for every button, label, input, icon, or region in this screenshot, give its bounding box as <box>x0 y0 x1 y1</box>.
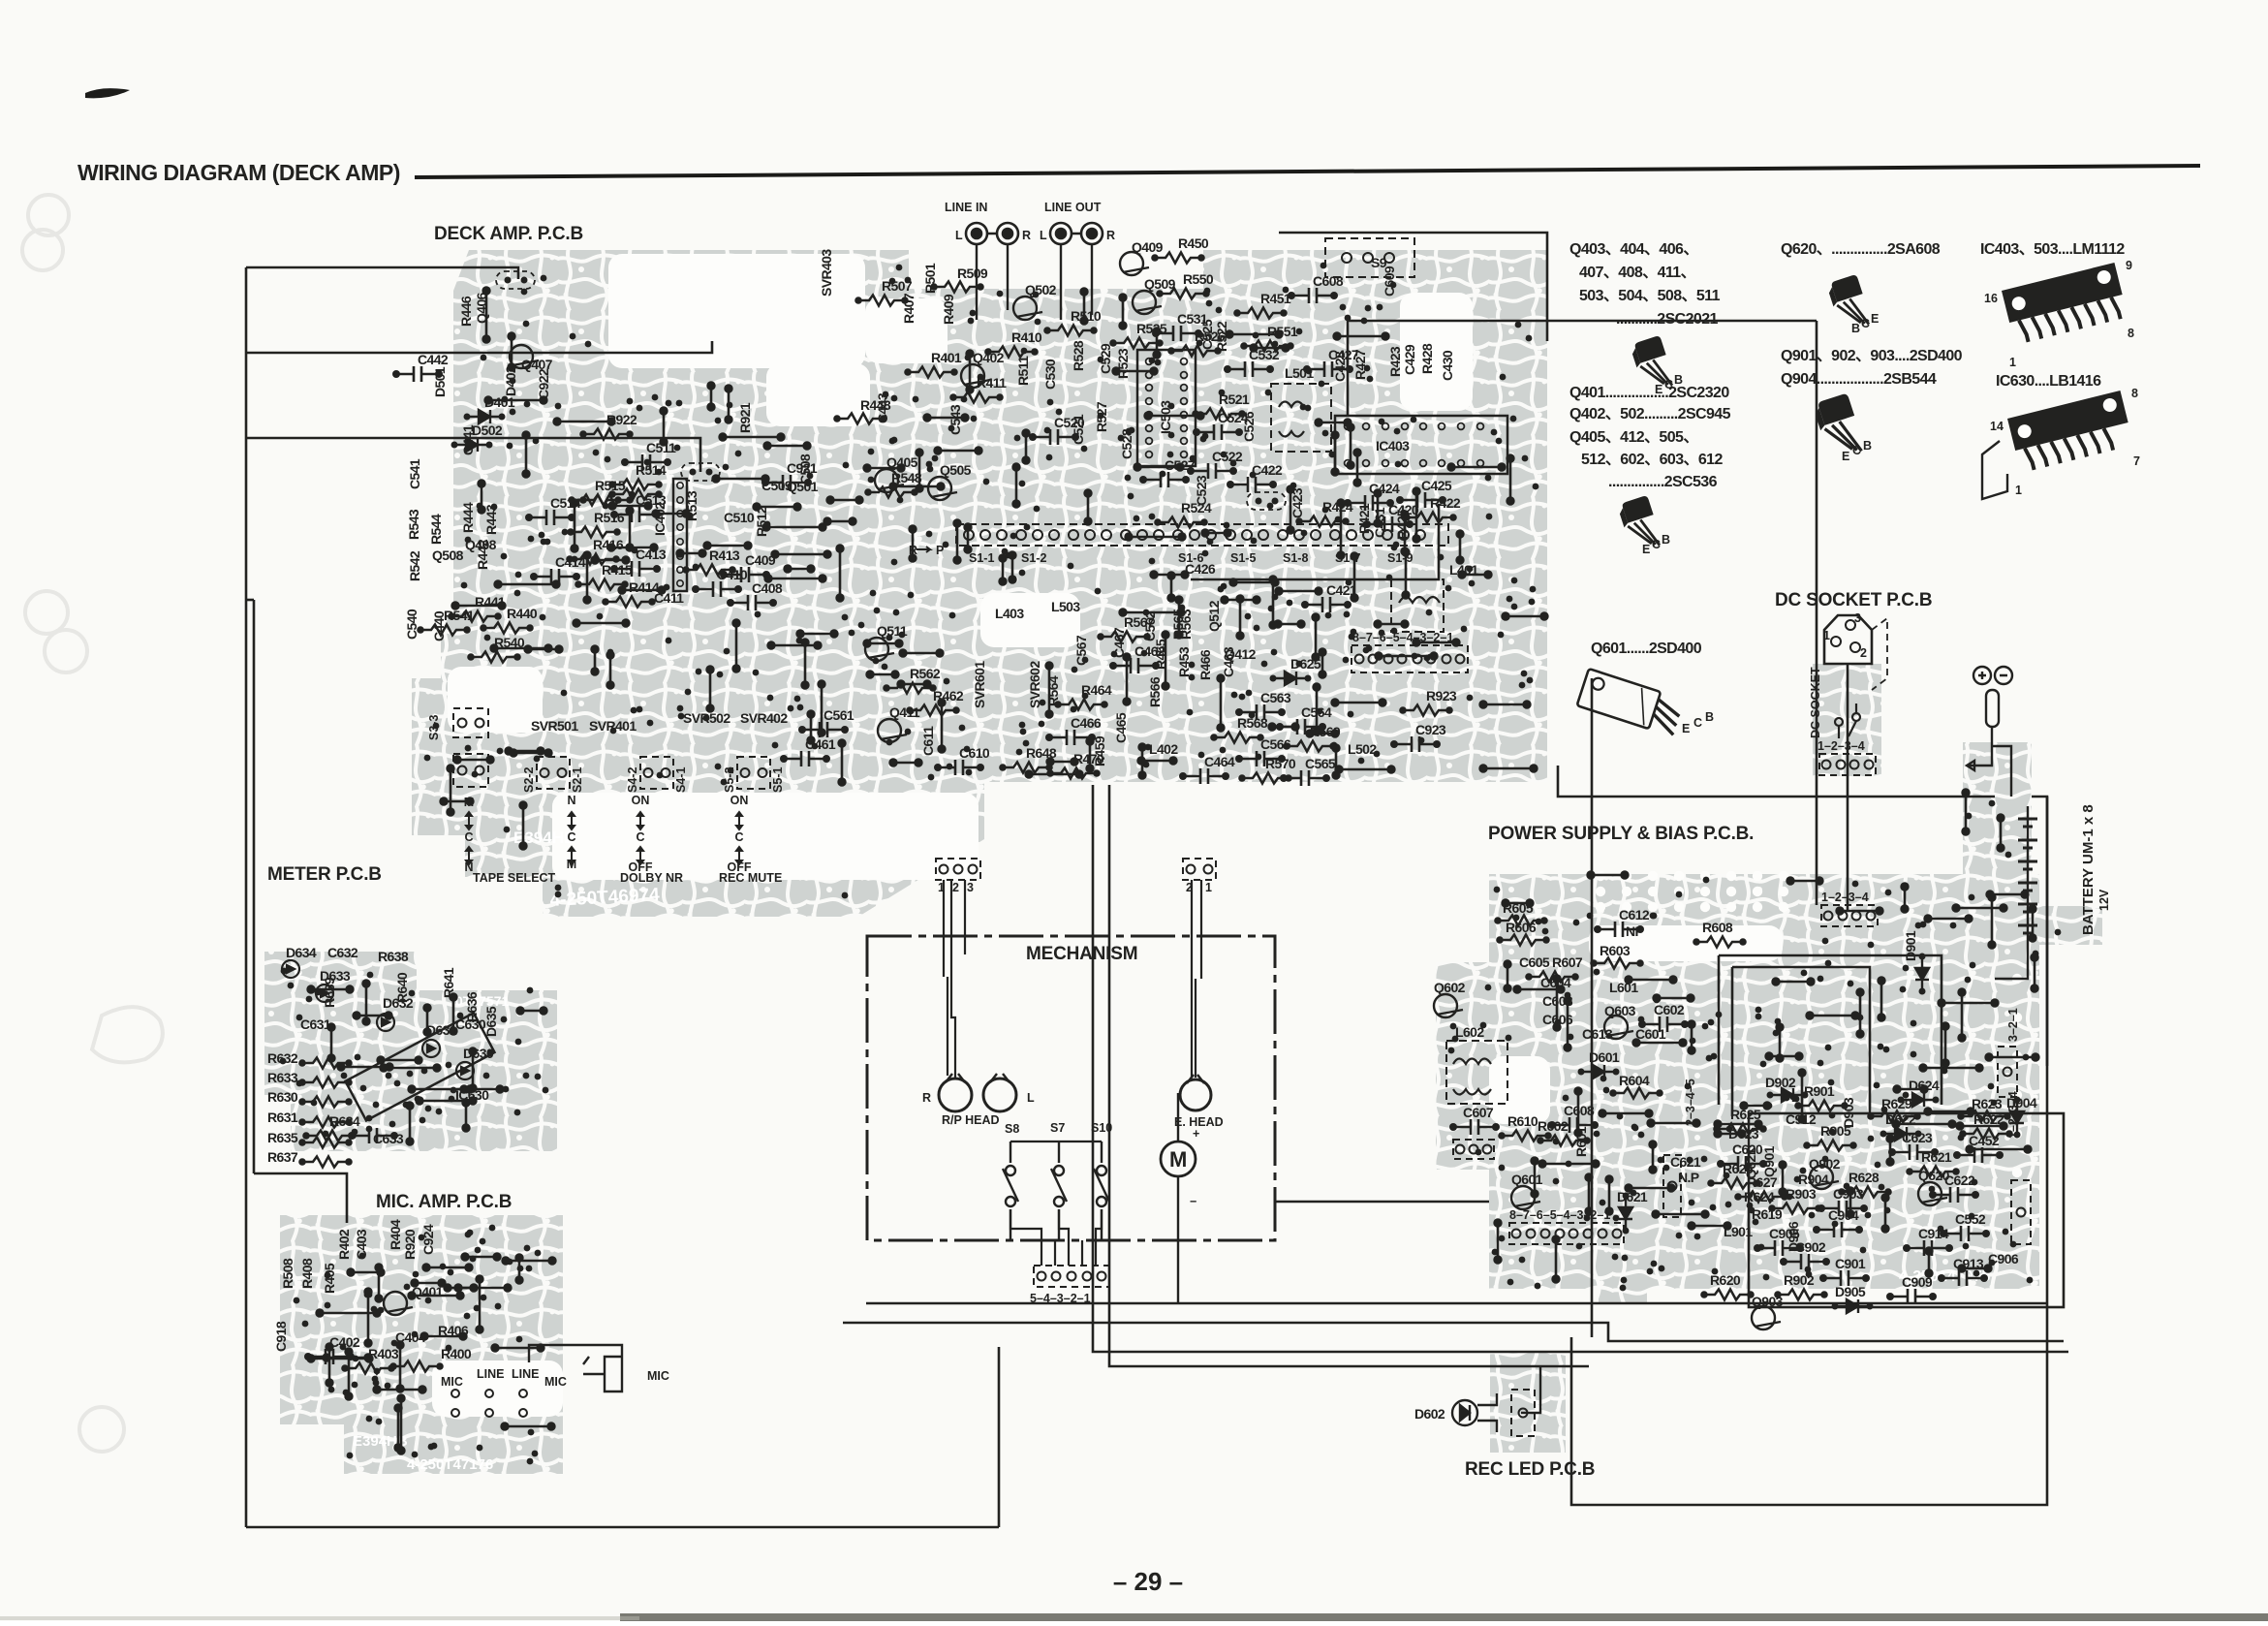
svg-text:B: B <box>1662 533 1670 547</box>
svg-text:DC SOCKET: DC SOCKET <box>1809 667 1822 738</box>
svg-text:−: − <box>1190 1195 1196 1208</box>
DC socket pins <box>1831 620 1860 652</box>
svg-text:R603: R603 <box>1600 943 1631 958</box>
svg-text:C607: C607 <box>1463 1105 1494 1120</box>
svg-text:E: E <box>1682 722 1690 735</box>
svg-text:512、602、603、612: 512、602、603、612 <box>1581 452 1723 468</box>
legend transistor 2SC536 drawing <box>1617 495 1660 546</box>
svg-text:SVR502: SVR502 <box>683 710 730 726</box>
svg-text:Q403、404、406、: Q403、404、406、 <box>1569 241 1698 258</box>
svg-text:R: R <box>922 1091 931 1105</box>
svg-text:R404: R404 <box>388 1219 403 1250</box>
svg-text:DC SOCKET P.C.B: DC SOCKET P.C.B <box>1775 590 1932 610</box>
meter diode glyphs <box>282 960 299 978</box>
svg-text:BATTERY UM-1 x 8: BATTERY UM-1 x 8 <box>2080 804 2097 935</box>
svg-text:S7: S7 <box>1050 1121 1065 1135</box>
svg-text:Q901、902、903....2SD400: Q901、902、903....2SD400 <box>1781 348 1963 364</box>
legend transistor 2SC2021 drawing <box>1630 335 1672 386</box>
mic amp board pad cluster <box>294 1225 542 1465</box>
svg-text:C540: C540 <box>404 609 419 640</box>
svg-text:R406: R406 <box>438 1323 469 1338</box>
svg-text:S4-2: S4-2 <box>626 767 639 793</box>
svg-text:MIC: MIC <box>544 1375 567 1389</box>
svg-text:C924: C924 <box>420 1224 436 1255</box>
svg-text:R408: R408 <box>299 1258 315 1289</box>
legend LB1416 DIP drawing <box>2007 391 2133 473</box>
svg-text:+: + <box>1193 1127 1199 1141</box>
svg-text:S1-1: S1-1 <box>969 551 994 565</box>
svg-text:D625: D625 <box>1290 656 1321 672</box>
svg-text:C564: C564 <box>1301 704 1332 720</box>
svg-text:C523: C523 <box>1194 475 1209 506</box>
svg-text:Q602: Q602 <box>1434 980 1466 995</box>
svg-text:R640: R640 <box>394 972 410 1003</box>
svg-text:C: C <box>1852 444 1861 457</box>
power bottom wire rect <box>1749 1113 2064 1307</box>
svg-text:C923: C923 <box>1415 722 1446 737</box>
svg-text:C608: C608 <box>1313 273 1344 289</box>
svg-text:L501: L501 <box>1285 365 1314 381</box>
svg-text:C461: C461 <box>805 736 836 752</box>
svg-text:Q601......2SD400: Q601......2SD400 <box>1591 641 1702 657</box>
svg-text:Q509: Q509 <box>1144 276 1176 292</box>
DC socket switch glyph <box>1835 704 1860 738</box>
battery to board wire <box>1995 959 2028 979</box>
svg-text:C918: C918 <box>273 1321 289 1352</box>
DC socket body <box>1824 615 1872 664</box>
power inner wire rect 2 <box>1732 967 1870 1116</box>
punch hole pair upper <box>25 591 68 634</box>
svg-text:Q401: Q401 <box>412 1284 444 1299</box>
svg-text:R551: R551 <box>1267 324 1298 339</box>
svg-text:C563: C563 <box>1260 690 1291 705</box>
svg-text:DOLBY NR: DOLBY NR <box>620 871 683 885</box>
svg-text:S1-5: S1-5 <box>1230 551 1256 565</box>
deck amp board pad cluster <box>424 263 1539 899</box>
jack LINE IN L <box>966 223 987 244</box>
jack LINE OUT R <box>1081 223 1103 244</box>
wire second left vertical <box>253 600 256 1173</box>
svg-text:L: L <box>955 229 963 242</box>
svg-text:C428: C428 <box>1332 351 1348 382</box>
svg-text:IC402: IC402 <box>652 502 668 536</box>
svg-text:R521: R521 <box>1219 391 1250 407</box>
svg-text:Q620、...............2SA608: Q620、...............2SA608 <box>1781 241 1941 258</box>
svg-text:C404: C404 <box>395 1329 426 1345</box>
R/P head right coil <box>983 1074 1016 1111</box>
svg-text:POWER SUPPLY & BIAS P.C.B.: POWER SUPPLY & BIAS P.C.B. <box>1488 824 1754 844</box>
wire s9 link <box>1279 233 1547 341</box>
svg-text:D601: D601 <box>1589 1049 1620 1065</box>
svg-text:D621: D621 <box>1617 1189 1648 1204</box>
svg-text:C466: C466 <box>1071 715 1102 731</box>
REC LED P.C.B copper area <box>1490 1351 1566 1453</box>
legend LB1416 bracket <box>1982 441 2007 499</box>
wire deck right drop 1 <box>1558 766 1995 797</box>
legend LM1112 DIP drawing <box>2002 263 2128 345</box>
svg-text:R648: R648 <box>1026 745 1057 761</box>
svg-text:3–2–1: 3–2–1 <box>2006 1008 2020 1042</box>
svg-text:SVR501: SVR501 <box>531 718 578 734</box>
svg-text:R921: R921 <box>737 402 753 433</box>
svg-text:R920: R920 <box>402 1229 418 1260</box>
svg-text:R: R <box>1106 229 1115 242</box>
svg-text:ON: ON <box>632 794 650 807</box>
svg-text:R902: R902 <box>1784 1272 1815 1288</box>
IC630 package rotated <box>345 1013 494 1120</box>
mic amp board jumper wires <box>308 1254 556 1454</box>
svg-text:C622: C622 <box>1944 1173 1975 1188</box>
svg-text:C612: C612 <box>1619 907 1650 922</box>
svg-text:C605: C605 <box>1519 954 1550 970</box>
svg-text:C613: C613 <box>1582 1026 1613 1042</box>
R/P head left coil <box>939 1074 972 1111</box>
svg-text:C413: C413 <box>636 547 667 562</box>
switch S8 <box>1003 1141 1018 1240</box>
mic board glyphs <box>384 1292 413 1315</box>
svg-text:IC403、503....LM1112: IC403、503....LM1112 <box>1980 241 2125 258</box>
svg-text:R442: R442 <box>475 539 490 570</box>
legend transistor 2SD400 drawing <box>1812 392 1861 451</box>
svg-text:R441: R441 <box>475 594 506 610</box>
svg-text:14: 14 <box>1990 420 2004 433</box>
svg-text:Q502: Q502 <box>1025 282 1057 297</box>
svg-text:R522: R522 <box>1214 321 1229 352</box>
svg-text:R604: R604 <box>1619 1073 1650 1088</box>
power connector right 3-2-1 <box>1998 1047 2017 1097</box>
svg-text:C408: C408 <box>752 580 783 596</box>
svg-text:R510: R510 <box>1071 308 1102 324</box>
svg-text:C422: C422 <box>1252 462 1283 478</box>
svg-text:METER P.C.B: METER P.C.B <box>267 864 382 885</box>
svg-text:C552: C552 <box>1955 1211 1986 1227</box>
punch hole lower <box>79 1407 124 1452</box>
switch S3-1 S3-2 box <box>453 754 488 787</box>
svg-text:Q412: Q412 <box>1225 646 1257 662</box>
svg-text:C631: C631 <box>300 1016 331 1032</box>
switch S10 <box>1094 1141 1109 1240</box>
svg-text:2: 2 <box>1860 646 1867 660</box>
svg-text:C632: C632 <box>327 945 358 960</box>
svg-text:MIC. AMP. P.C.B: MIC. AMP. P.C.B <box>376 1192 512 1212</box>
svg-text:C465: C465 <box>1113 712 1129 743</box>
connector 8-7-6 strip on deck <box>1351 645 1468 672</box>
svg-text:S2-1: S2-1 <box>571 767 584 793</box>
svg-text:C608: C608 <box>1564 1103 1595 1118</box>
punch hole top-left <box>22 230 63 270</box>
svg-text:1: 1 <box>1823 629 1830 642</box>
svg-text:C621: C621 <box>1670 1154 1701 1170</box>
wire bundle bottom 3 <box>1093 785 2068 1352</box>
svg-text:L401: L401 <box>1449 562 1478 578</box>
svg-text:3: 3 <box>967 881 974 894</box>
svg-text:L: L <box>1040 229 1047 242</box>
svg-text:C402: C402 <box>329 1334 360 1350</box>
POWER SUPPLY & BIAS P.C.B copper area <box>1436 742 2102 1303</box>
svg-text:R/P HEAD: R/P HEAD <box>942 1113 1000 1127</box>
svg-text:2: 2 <box>952 881 959 894</box>
svg-text:C601: C601 <box>1635 1026 1666 1042</box>
svg-text:503、504、508、511: 503、504、508、511 <box>1579 288 1721 304</box>
DC socket bottom pads <box>1819 754 1876 775</box>
svg-text:D624: D624 <box>1909 1078 1940 1093</box>
svg-text:Q511: Q511 <box>877 623 908 639</box>
switch S3-3 box <box>453 708 488 737</box>
S9 pads <box>1342 253 1394 263</box>
svg-text:REC MUTE: REC MUTE <box>719 871 782 885</box>
svg-text:C430: C430 <box>1440 350 1455 381</box>
svg-text:S4-1: S4-1 <box>674 767 688 793</box>
svg-text:C: C <box>636 830 644 844</box>
svg-text:C543: C543 <box>948 404 963 435</box>
svg-text:C610: C610 <box>959 745 990 761</box>
svg-text:D402: D402 <box>503 365 518 396</box>
svg-text:C541: C541 <box>407 458 422 489</box>
svg-text:R402: R402 <box>336 1229 352 1260</box>
power connector 1-2-3 <box>1453 1140 1494 1159</box>
power board component glyphs <box>1494 916 1548 926</box>
power inner wire rect 1 <box>1719 955 1942 1105</box>
svg-text:IC403: IC403 <box>1376 438 1410 453</box>
DC socket dashed outline <box>1872 618 1887 690</box>
svg-text:R607: R607 <box>1552 954 1583 970</box>
svg-text:Q512: Q512 <box>1206 600 1222 632</box>
svg-text:3: 3 <box>1854 611 1861 625</box>
legend 2SD400 TO220 drawing <box>1577 669 1685 736</box>
wire strip link <box>1191 504 1439 579</box>
deck amp board jumper wires <box>441 288 1548 850</box>
S9 dashed box <box>1325 238 1414 277</box>
wire frame riser <box>998 1347 1001 1527</box>
svg-text:R507: R507 <box>882 278 913 294</box>
svg-text:C561: C561 <box>823 707 854 723</box>
svg-text:...........2SC2021: ...........2SC2021 <box>1616 311 1719 328</box>
erase head coil <box>1180 1075 1211 1110</box>
svg-text:R443: R443 <box>483 504 499 535</box>
svg-text:L602: L602 <box>1455 1024 1484 1040</box>
svg-text:4-250T47176: 4-250T47176 <box>407 1456 493 1473</box>
rec led wires <box>1477 1366 1540 1432</box>
svg-text:B: B <box>1851 322 1860 335</box>
svg-text:D602: D602 <box>1414 1406 1445 1422</box>
svg-text:C423: C423 <box>1289 487 1305 518</box>
svg-text:Q405、412、505、: Q405、412、505、 <box>1569 429 1698 446</box>
svg-text:D634: D634 <box>286 945 317 960</box>
meter board jumper wires <box>308 981 547 1145</box>
svg-text:C421: C421 <box>1326 582 1357 598</box>
svg-text:LINE OUT: LINE OUT <box>1044 201 1102 214</box>
svg-text:R: R <box>1022 229 1031 242</box>
power connector strip 8pins <box>1509 1223 1624 1244</box>
svg-text:C: C <box>734 830 743 844</box>
diode D602 symbol <box>1452 1400 1477 1425</box>
wire ic403 frame <box>1348 321 1817 415</box>
svg-text:R511: R511 <box>1015 356 1031 386</box>
svg-text:R413: R413 <box>709 547 740 563</box>
svg-text:8–7–6–5–4–3–2–1: 8–7–6–5–4–3–2–1 <box>1509 1208 1610 1222</box>
wire left frame vertical <box>245 267 248 1527</box>
svg-text:– 29 –: – 29 – <box>1113 1567 1183 1596</box>
svg-text:TAPE SELECT: TAPE SELECT <box>473 871 556 885</box>
svg-text:C901: C901 <box>1835 1256 1866 1271</box>
svg-text:LINE: LINE <box>477 1367 504 1381</box>
svg-text:1: 1 <box>1205 881 1212 894</box>
svg-text:R428: R428 <box>1419 343 1435 374</box>
head wires right <box>1192 880 1201 1078</box>
svg-text:7: 7 <box>2133 454 2140 468</box>
svg-text:S2-2: S2-2 <box>522 767 536 793</box>
L401 coil box <box>1391 579 1444 632</box>
svg-text:C: C <box>1693 716 1702 730</box>
mechanism enclosure box <box>867 936 1275 1240</box>
svg-text:R527: R527 <box>1094 401 1109 432</box>
svg-text:C528: C528 <box>1119 428 1134 459</box>
svg-text:Q402、502.........2SC945: Q402、502.........2SC945 <box>1569 406 1731 422</box>
svg-text:R635: R635 <box>267 1130 298 1145</box>
pad stub 1-2 top left <box>496 271 535 289</box>
svg-text:B: B <box>1705 710 1714 724</box>
svg-text:R440: R440 <box>507 606 538 621</box>
svg-text:1: 1 <box>2015 484 2022 497</box>
legend transistor 2SA608 drawing <box>1826 274 1869 325</box>
svg-text:MECHANISM: MECHANISM <box>1026 944 1137 964</box>
deck amp component glyphs <box>579 429 634 440</box>
switch link wires <box>1010 1141 1102 1266</box>
svg-text:S3-3: S3-3 <box>427 715 441 740</box>
svg-text:D905: D905 <box>1835 1284 1866 1299</box>
svg-text:C909: C909 <box>1902 1274 1933 1290</box>
svg-text:C905: C905 <box>1769 1226 1800 1241</box>
svg-text:C: C <box>464 830 473 844</box>
svg-text:R923: R923 <box>1426 688 1457 704</box>
svg-text:407、408、411、: 407、408、411、 <box>1579 265 1695 281</box>
svg-text:R550: R550 <box>1183 271 1214 287</box>
wire bundle bottom 1 <box>866 1302 2047 1305</box>
wire bundle bottom 4 <box>1109 785 1589 1366</box>
svg-text:R544: R544 <box>428 514 444 545</box>
svg-text:1–2–3–4: 1–2–3–4 <box>1821 891 1869 904</box>
power board hole grid <box>1596 871 2022 1177</box>
svg-text:L503: L503 <box>1051 599 1080 614</box>
svg-text:C511: C511 <box>646 440 676 455</box>
svg-text:2–3–4–5: 2–3–4–5 <box>1684 1079 1697 1126</box>
svg-text:R410: R410 <box>1011 329 1042 345</box>
svg-text:C403: C403 <box>354 1229 369 1260</box>
svg-text:IC630: IC630 <box>455 1087 489 1103</box>
svg-text:R509: R509 <box>957 266 988 281</box>
svg-text:R562: R562 <box>910 666 941 681</box>
meter resistor row glyphs <box>298 1058 353 1069</box>
svg-text:R566: R566 <box>1147 676 1163 707</box>
svg-text:1–2–3–4: 1–2–3–4 <box>1818 739 1865 753</box>
svg-text:R563: R563 <box>1178 609 1194 640</box>
jack LINE IN R <box>997 223 1018 244</box>
svg-text:L403: L403 <box>995 606 1024 621</box>
punch hole middle <box>92 1007 163 1062</box>
svg-text:R632: R632 <box>267 1050 298 1066</box>
svg-text:1–2–3–4: 1–2–3–4 <box>2006 1091 2020 1139</box>
svg-text:R400: R400 <box>441 1346 472 1361</box>
svg-text:C922: C922 <box>536 368 551 399</box>
svg-text:R444: R444 <box>460 502 476 533</box>
svg-text:C520: C520 <box>1054 415 1085 430</box>
power supply board pad cluster <box>1448 800 2062 1292</box>
svg-text:8: 8 <box>2128 327 2134 340</box>
svg-text:R610: R610 <box>1507 1113 1538 1129</box>
svg-text:Q401.................2SC2320: Q401.................2SC2320 <box>1569 385 1729 401</box>
wire deck right drop 2 <box>1591 678 1594 1337</box>
wire deck top-left horizontal <box>246 267 518 279</box>
svg-text:S1-8: S1-8 <box>1283 551 1308 565</box>
svg-text:...............2SC536: ...............2SC536 <box>1608 474 1718 490</box>
wire power top link <box>1816 321 1818 905</box>
svg-text:R633: R633 <box>267 1070 298 1085</box>
svg-text:R620: R620 <box>1710 1272 1741 1288</box>
wire mech to power <box>1275 1201 1489 1204</box>
svg-text:IC630....LB1416: IC630....LB1416 <box>1996 373 2101 390</box>
svg-text:R608: R608 <box>1702 920 1733 935</box>
svg-text:E: E <box>1642 543 1650 556</box>
svg-text:C425: C425 <box>1421 478 1452 493</box>
svg-text:R605: R605 <box>1503 900 1534 916</box>
svg-text:D630: D630 <box>463 1046 494 1061</box>
svg-text:C904: C904 <box>1828 1207 1859 1223</box>
svg-text:D502: D502 <box>472 422 503 438</box>
svg-text:S1-2: S1-2 <box>1021 551 1046 565</box>
pad stub 1-2 mid <box>681 463 720 481</box>
svg-text:C606: C606 <box>1542 1012 1573 1027</box>
svg-text:D635: D635 <box>483 1006 499 1037</box>
jack wires <box>977 234 1092 320</box>
svg-text:SVR401: SVR401 <box>589 718 637 734</box>
svg-text:R450: R450 <box>1178 235 1209 251</box>
svg-text:C510: C510 <box>724 510 755 525</box>
power connector right 1-2-3-4 <box>2011 1180 2031 1244</box>
svg-text:R405: R405 <box>322 1263 337 1294</box>
power supply board jumper wires <box>1495 790 2039 1283</box>
svg-text:Q405: Q405 <box>886 454 918 470</box>
svg-text:R409: R409 <box>941 294 956 325</box>
svg-text:SVR602: SVR602 <box>1027 661 1042 708</box>
svg-text:C602: C602 <box>1654 1002 1685 1017</box>
switch S7 <box>1051 1141 1067 1240</box>
svg-text:C913: C913 <box>1953 1256 1984 1271</box>
svg-text:R516: R516 <box>594 510 625 525</box>
svg-text:M: M <box>1169 1147 1187 1172</box>
svg-text:S10: S10 <box>1091 1121 1112 1135</box>
DECK AMP P.C.B copper area <box>412 250 1547 917</box>
head wires left <box>944 880 965 1079</box>
switch S4 box <box>640 757 673 789</box>
svg-text:S1-7: S1-7 <box>1335 551 1360 565</box>
svg-text:C442: C442 <box>418 352 449 367</box>
wire into C442 area <box>246 341 712 353</box>
svg-text:B: B <box>1863 439 1872 453</box>
mechanism bottom connector <box>1034 1266 1109 1287</box>
svg-text:C565: C565 <box>1305 756 1336 771</box>
svg-text:R401: R401 <box>931 350 962 365</box>
svg-text:R528: R528 <box>1071 340 1086 371</box>
battery plug pill <box>1986 690 1999 727</box>
svg-text:R466: R466 <box>1197 649 1213 680</box>
svg-text:C: C <box>1652 538 1661 551</box>
svg-text:MIC: MIC <box>647 1369 669 1383</box>
svg-text:E: E <box>1871 312 1879 326</box>
svg-text:R: R <box>909 544 917 557</box>
svg-text:C530: C530 <box>1042 359 1058 390</box>
svg-text:R523: R523 <box>1115 348 1131 379</box>
svg-text:M: M <box>464 796 474 809</box>
